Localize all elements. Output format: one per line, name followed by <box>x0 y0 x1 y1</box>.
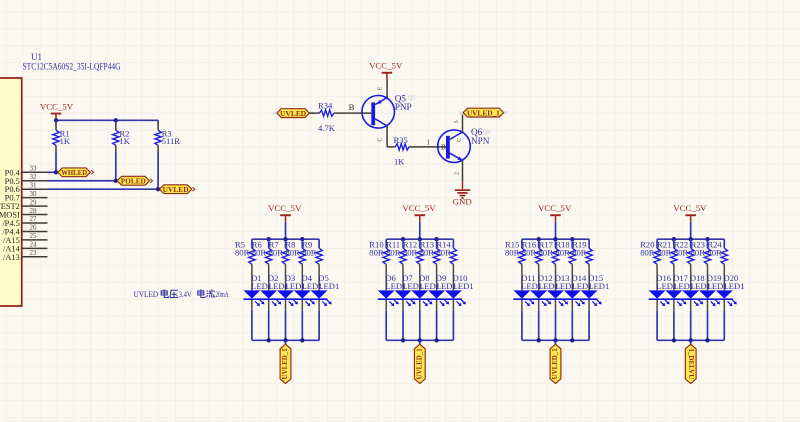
wire D8 cathode down <box>419 300 421 311</box>
LED D1 symbol <box>243 290 260 298</box>
svg-text:LED1: LED1 <box>724 281 745 291</box>
svg-text:30: 30 <box>30 190 38 198</box>
wire bus to R6 <box>268 239 270 248</box>
LED D2 symbol <box>260 290 277 298</box>
svg-text:UVLED: UVLED <box>134 290 159 299</box>
wire pin32 to POLED <box>48 180 118 182</box>
junction dot at R1 top <box>54 118 58 122</box>
svg-text:80R: 80R <box>369 248 384 258</box>
svg-text:1K: 1K <box>394 156 405 166</box>
svg-text:80R: 80R <box>707 248 722 258</box>
IC U1 pin 26 (/P4.4) <box>22 230 48 232</box>
wire R9 to D5 <box>318 264 320 290</box>
svg-text:LED1: LED1 <box>588 281 609 291</box>
wire R7 to D3 <box>285 264 287 290</box>
wire R18 to D14 <box>571 264 573 290</box>
svg-text:1_DELVU: 1_DELVU <box>687 348 695 379</box>
Q5 emitter pin to VCC <box>386 79 388 98</box>
transistor Q5 PNP <box>362 96 395 129</box>
port POLED <box>117 176 149 185</box>
LED D5 symbol <box>311 290 328 298</box>
resistor R18 80R <box>569 248 575 264</box>
junction dots top bus <box>672 237 676 241</box>
LED cathode bar <box>378 298 462 300</box>
svg-text:UVLED_1: UVLED_1 <box>281 348 289 379</box>
port UVLED_1 (group D11-D15) <box>550 344 561 383</box>
wire bottom bus <box>252 339 319 341</box>
wire bus to R23 <box>707 239 709 248</box>
svg-text:3: 3 <box>453 120 460 123</box>
LED D17 symbol <box>665 290 682 298</box>
wire R13 to D9 <box>436 264 438 290</box>
wire D11 cathode down <box>521 300 523 311</box>
wire bus to R14 <box>452 239 454 248</box>
svg-text:Q5: Q5 <box>408 96 415 102</box>
wire bus to R17 <box>555 239 557 248</box>
svg-text:VCC_5V: VCC_5V <box>369 61 403 71</box>
svg-text:80R: 80R <box>437 248 452 258</box>
transistor Q6 NPN <box>438 130 471 163</box>
wire D16 cathode down <box>656 300 658 311</box>
resistor R15 80R <box>519 248 525 264</box>
LED D3 symbol <box>277 290 294 298</box>
svg-text:VCC_5V: VCC_5V <box>673 203 707 213</box>
svg-text:20mA: 20mA <box>215 290 228 299</box>
wire R14 to D10 <box>452 264 454 290</box>
LED D9 symbol <box>428 290 445 298</box>
IC U1 pin 31 (P0.6) <box>22 188 48 190</box>
resistor R1 1K <box>53 130 59 145</box>
LED D16 symbol <box>649 290 666 298</box>
junction dots top bus <box>537 237 541 241</box>
resistor R23 80R <box>704 248 710 264</box>
wire bus to R10 <box>385 239 387 248</box>
IC U1 pin 28 (MOSI) <box>22 214 48 216</box>
wire top bus <box>386 238 453 240</box>
port WHLED <box>58 168 91 177</box>
svg-text:80R: 80R <box>539 248 554 258</box>
wire VCC stem <box>690 222 692 239</box>
svg-text:80R: 80R <box>555 248 570 258</box>
wire D7 cathode down <box>402 300 404 311</box>
wire top bus <box>252 238 319 240</box>
wire D1 cathode down <box>251 300 253 311</box>
wire VCC stem <box>419 222 421 239</box>
resistor R16 80R <box>536 248 542 264</box>
svg-text:VCC_5V: VCC_5V <box>538 203 572 213</box>
svg-text:PNP: PNP <box>395 102 412 112</box>
wire R6 to D2 <box>268 264 270 290</box>
wire pin33 to WHLED <box>48 171 58 173</box>
junction dots top bus <box>401 237 405 241</box>
wire R21 to D17 <box>673 264 675 290</box>
LED D15 symbol <box>581 290 598 298</box>
svg-text:STC12C5A60S2_35I-LQFP44G: STC12C5A60S2_35I-LQFP44G <box>23 62 121 72</box>
wire D15 cathode down <box>588 300 590 311</box>
LED D20 symbol <box>716 290 733 298</box>
wire D10 cathode down <box>452 300 454 311</box>
svg-text:VCC_5V: VCC_5V <box>402 203 436 213</box>
svg-text:511R: 511R <box>162 136 181 146</box>
svg-text:POLED: POLED <box>121 177 146 186</box>
svg-text:1K: 1K <box>119 136 130 146</box>
resistor R19 80R <box>586 248 592 264</box>
LED D14 symbol <box>564 290 581 298</box>
junction dots top bus <box>267 237 271 241</box>
svg-text:UVLED: UVLED <box>280 109 306 118</box>
wire R2 to port row <box>115 146 117 153</box>
port UVLED_1 (driver output) <box>463 108 504 117</box>
svg-text:3.4V: 3.4V <box>179 290 192 299</box>
svg-text:28: 28 <box>30 207 38 215</box>
IC U1 body <box>0 78 22 306</box>
wire VCC to R1 R2 R3 top bus <box>56 119 158 121</box>
wire bus to R9 <box>318 239 320 248</box>
svg-text:80R: 80R <box>285 248 300 258</box>
wire bus to R12 <box>419 239 421 248</box>
svg-text:24: 24 <box>30 241 38 249</box>
svg-text:LED1: LED1 <box>318 281 339 291</box>
Q6 emitter pin <box>462 160 464 181</box>
svg-text:R35: R35 <box>394 135 408 145</box>
resistor R10 80R <box>383 248 389 264</box>
svg-text:C: C <box>456 138 463 142</box>
IC U1 pin 32 (P0.5) <box>22 180 48 182</box>
wire D17 cathode down <box>673 300 675 311</box>
resistor R14 80R <box>450 248 456 264</box>
wire bus to R1 <box>55 120 57 123</box>
svg-text:GND: GND <box>453 196 472 206</box>
junction dots bottom bus <box>537 338 541 342</box>
LED D7 symbol <box>395 290 412 298</box>
svg-text:80R: 80R <box>302 248 317 258</box>
junction dots bottom bus <box>267 338 271 342</box>
wire D13 cathode down <box>555 300 557 311</box>
svg-text:25: 25 <box>30 232 38 240</box>
svg-text:B: B <box>441 143 446 151</box>
wire bus to R2 <box>115 120 117 123</box>
resistor R5 80R <box>249 248 255 264</box>
svg-text:NPN: NPN <box>471 136 490 146</box>
svg-text:80R: 80R <box>269 248 284 258</box>
wire R12 to D8 <box>419 264 421 290</box>
IC U1 pin 33 (P0.4) <box>22 171 48 173</box>
svg-text:32: 32 <box>30 173 38 181</box>
IC U1 pin 25 (/A15) <box>22 239 48 241</box>
svg-text:UVLED_1: UVLED_1 <box>415 348 423 379</box>
port UVLED (driver input) <box>277 109 310 118</box>
wire R19 to D15 <box>588 264 590 290</box>
svg-text:UVLED_1: UVLED_1 <box>551 348 559 379</box>
svg-text:80R: 80R <box>691 248 706 258</box>
IC U1 pin 29 (TEST2) <box>22 205 48 207</box>
wire bus to port <box>285 340 287 344</box>
LED D10 symbol <box>445 290 462 298</box>
wire bus to port <box>555 340 557 344</box>
svg-text:33: 33 <box>30 165 38 173</box>
IC U1 pin 23 (/A13) <box>22 256 48 258</box>
svg-text:29: 29 <box>30 198 38 206</box>
wire bus to R3 <box>157 120 159 123</box>
wire D9 cathode down <box>436 300 438 311</box>
IC U1 pin 27 (/P4.5) <box>22 222 48 224</box>
wire D12 cathode down <box>538 300 540 311</box>
LED D6 symbol <box>378 290 395 298</box>
wire R20 to D16 <box>656 264 658 290</box>
svg-text:80R: 80R <box>235 248 250 258</box>
wire bus to R13 <box>436 239 438 248</box>
svg-text:E: E <box>376 86 383 90</box>
junction dots bottom bus <box>672 338 676 342</box>
svg-text:26: 26 <box>30 224 38 232</box>
wire UVLED port to R34 <box>309 112 319 114</box>
svg-text:1K: 1K <box>60 136 71 146</box>
LED D4 symbol <box>294 290 311 298</box>
resistor R22 80R <box>688 248 694 264</box>
svg-text:C: C <box>377 138 384 142</box>
wire R23 to D19 <box>707 264 709 290</box>
LED cathode bar <box>243 298 327 300</box>
wire D18 cathode down <box>690 300 692 311</box>
wire R35 to Q6 base <box>409 146 446 148</box>
wire pin31 to UVLED <box>48 188 160 190</box>
svg-text:80R: 80R <box>252 248 267 258</box>
resistor R9 80R <box>316 248 322 264</box>
resistor R6 80R <box>266 248 272 264</box>
svg-text:B: B <box>349 102 355 112</box>
svg-text:R34: R34 <box>318 100 333 110</box>
LED D8 symbol <box>411 290 428 298</box>
Q6 collector pin <box>462 115 464 133</box>
wire bus to R11 <box>402 239 404 248</box>
svg-text:/A13: /A13 <box>3 253 20 262</box>
wire VCC stem <box>555 222 557 239</box>
svg-text:80R: 80R <box>657 248 672 258</box>
wire bus to R8 <box>301 239 303 248</box>
port UVLED <box>159 185 191 194</box>
wire bus to R16 <box>538 239 540 248</box>
wire bus to port <box>419 340 421 344</box>
wire R10 to D6 <box>385 264 387 290</box>
wire bottom bus <box>386 339 453 341</box>
wire D14 cathode down <box>571 300 573 311</box>
ground GND <box>462 182 464 190</box>
wire R17 to D13 <box>555 264 557 290</box>
svg-text:UVLED_1: UVLED_1 <box>467 109 500 118</box>
svg-text:VCC_5V: VCC_5V <box>40 101 74 111</box>
wire D4 cathode down <box>301 300 303 311</box>
wire R5 to D1 <box>251 264 253 290</box>
wire D6 cathode down <box>385 300 387 311</box>
wire D5 cathode down <box>318 300 320 311</box>
svg-text:80R: 80R <box>522 248 537 258</box>
svg-text:80R: 80R <box>674 248 689 258</box>
svg-text:80R: 80R <box>386 248 401 258</box>
wire Q5 collector to R35 <box>387 146 395 148</box>
wire D2 cathode down <box>268 300 270 311</box>
LED D18 symbol <box>682 290 699 298</box>
wire bus to R24 <box>723 239 725 248</box>
wire VCC stem <box>285 222 287 239</box>
svg-text:U1: U1 <box>31 52 42 62</box>
svg-text:1: 1 <box>426 139 430 147</box>
port UVLED_1 (group D16-D20) <box>685 344 696 383</box>
resistor R2 1K <box>113 130 119 145</box>
resistor R13 80R <box>433 248 439 264</box>
wire bus to R21 <box>673 239 675 248</box>
LED cathode bar <box>513 298 597 300</box>
resistor R35 1K <box>395 144 409 150</box>
wire R11 to D7 <box>402 264 404 290</box>
junction dot R2/pin32 <box>114 179 118 183</box>
wire R8 to D4 <box>301 264 303 290</box>
wire bus to R20 <box>656 239 658 248</box>
wire bus to R5 <box>251 239 253 248</box>
LED D19 symbol <box>699 290 716 298</box>
svg-text:4.7K: 4.7K <box>318 123 336 133</box>
LED D11 symbol <box>513 290 530 298</box>
wire bottom bus <box>522 339 589 341</box>
junction dot R3/pin31 <box>156 187 160 191</box>
resistor R7 80R <box>282 248 288 264</box>
junction dot R1/pin33 <box>54 170 58 174</box>
port UVLED_1 (group D6-D10) <box>414 344 425 383</box>
resistor R11 80R <box>400 248 406 264</box>
wire R24 to D20 <box>723 264 725 290</box>
LED D13 symbol <box>547 290 564 298</box>
svg-text:Q6: Q6 <box>483 129 490 135</box>
svg-text:23: 23 <box>30 249 38 257</box>
wire R16 to D12 <box>538 264 540 290</box>
LED cathode bar <box>649 298 733 300</box>
wire R22 to D18 <box>690 264 692 290</box>
junction dots bottom bus <box>401 338 405 342</box>
resistor R3 511R <box>155 130 161 145</box>
wire bus to R22 <box>690 239 692 248</box>
svg-text:80R: 80R <box>403 248 418 258</box>
resistor R12 80R <box>417 248 423 264</box>
resistor R17 80R <box>552 248 558 264</box>
Q5 collector pin <box>386 126 388 147</box>
wire bus to R15 <box>521 239 523 248</box>
wire R34 to Q5 base <box>334 112 372 114</box>
svg-text:31: 31 <box>30 181 38 189</box>
wire bus to R18 <box>571 239 573 248</box>
wire top bus <box>657 238 724 240</box>
wire D3 cathode down <box>285 300 287 311</box>
wire top bus <box>522 238 589 240</box>
wire bus to R19 <box>588 239 590 248</box>
svg-text:80R: 80R <box>420 248 435 258</box>
port UVLED_1 (group D1-D5) <box>280 344 291 383</box>
IC U1 pin 30 (P0.7) <box>22 197 48 199</box>
wire bus to R7 <box>285 239 287 248</box>
svg-text:80R: 80R <box>640 248 655 258</box>
resistor R34 4.7K <box>320 110 334 116</box>
wire R15 to D11 <box>521 264 523 290</box>
resistor R20 80R <box>654 248 660 264</box>
wire R3 to port row <box>157 146 159 153</box>
wire bottom bus <box>657 339 724 341</box>
wire bus to port <box>690 340 692 344</box>
resistor R21 80R <box>671 248 677 264</box>
svg-text:80R: 80R <box>572 248 587 258</box>
IC U1 pin 24 (/A14) <box>22 247 48 249</box>
wire D20 cathode down <box>723 300 725 311</box>
wire R1 to port row <box>55 146 57 153</box>
svg-text:WHLED: WHLED <box>61 168 87 177</box>
svg-text:UVLED: UVLED <box>163 185 189 194</box>
svg-text:LED1: LED1 <box>453 281 474 291</box>
junction dot at R2 top <box>114 118 118 122</box>
resistor R8 80R <box>299 248 305 264</box>
wire D19 cathode down <box>707 300 709 311</box>
LED D12 symbol <box>530 290 547 298</box>
resistor R24 80R <box>721 248 727 264</box>
svg-text:VCC_5V: VCC_5V <box>268 203 302 213</box>
svg-text:80R: 80R <box>505 248 520 258</box>
svg-text:27: 27 <box>30 215 38 223</box>
svg-text:2: 2 <box>454 172 461 175</box>
